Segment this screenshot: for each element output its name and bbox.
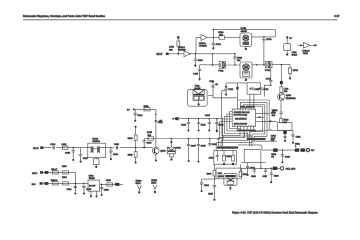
- svg-text:U801 SA606DK: U801 SA606DK: [241, 105, 256, 108]
- wire FL702 out: [252, 64, 265, 66]
- inductor L801 series: [62, 146, 68, 149]
- op-amp U702-3: [184, 51, 190, 57]
- wire bus1: [174, 118, 223, 120]
- svg-text:RSSI: RSSI: [303, 53, 308, 55]
- svg-text:R808 0: R808 0: [51, 180, 58, 182]
- node dot rail cross: [75, 183, 77, 185]
- svg-text:C703: C703: [198, 60, 204, 62]
- gnd dot Q802: [155, 159, 157, 161]
- resistor R805 on bus2: [148, 137, 154, 140]
- bus2 wire: [144, 119, 222, 151]
- corner down to C834: [200, 179, 203, 190]
- wire input row: [43, 147, 87, 149]
- inductor L701: [280, 87, 283, 93]
- capacitor C712 right: [262, 87, 263, 90]
- capacitor C817 drop3: [264, 168, 267, 174]
- svg-text:C712: C712: [264, 89, 269, 91]
- svg-text:L703: L703: [169, 47, 175, 49]
- svg-text:SHLD: SHLD: [292, 55, 298, 57]
- node dot C708 top: [270, 84, 272, 86]
- dark bar bus B2: [247, 138, 266, 140]
- capacitor C824: [74, 185, 77, 194]
- gnd dot U802-2: [95, 195, 97, 197]
- svg-text:C807: C807: [191, 145, 197, 147]
- svg-text:SHLD: SHLD: [136, 183, 142, 185]
- svg-text:R708: R708: [293, 70, 299, 72]
- capacitor C816 drop2: [253, 168, 256, 174]
- left vertical R833: [213, 164, 216, 179]
- wire Q802 collector up: [155, 109, 157, 147]
- wire to detector corner: [238, 145, 262, 150]
- resistor R803: [144, 108, 150, 111]
- svg-text:C821: C821: [296, 136, 302, 138]
- capacitor C804: [134, 109, 137, 121]
- capacitor C708: [264, 68, 272, 97]
- wire rail1: [43, 171, 75, 173]
- dark bar bus B1: [217, 146, 238, 148]
- inductor L702 can column: [284, 36, 291, 55]
- tick junction: [155, 113, 157, 115]
- svg-text:45M15A: 45M15A: [92, 140, 100, 143]
- wire U702-1 out: [207, 37, 219, 39]
- filter box T801: [214, 151, 237, 165]
- wire det gnd branch: [202, 179, 216, 184]
- svg-text:TDB159: TDB159: [178, 49, 186, 51]
- U802 gnd stub2: [96, 191, 98, 195]
- capacitor C810 on collector line: [154, 121, 157, 122]
- FL801 interior wire: [88, 148, 106, 149]
- wire R704 to FL701: [225, 37, 240, 39]
- wire U802 out: [100, 183, 123, 185]
- op-amp U702-1: [201, 35, 207, 41]
- terminal RX IF: [166, 53, 169, 55]
- node dot Y803 top: [171, 138, 173, 140]
- capacitor C831 inside: [216, 151, 219, 162]
- svg-text:C707: C707: [193, 73, 199, 75]
- shield SH801 symbol: [137, 185, 141, 193]
- wire vertical to det bus: [260, 150, 262, 168]
- wire FL801 out: [106, 147, 153, 149]
- gnd dot R832: [232, 163, 234, 165]
- bead E801: [175, 117, 178, 120]
- IC bottom pin stubs: [238, 126, 254, 129]
- node junction dots: [190, 53, 191, 54]
- wire Y701 row: [200, 54, 240, 65]
- wire Q701 emitter down: [280, 100, 282, 112]
- capacitor C836: [246, 163, 249, 176]
- crystal filter FL702: [240, 62, 252, 81]
- capacitor C806a: [79, 148, 82, 163]
- sub box: [278, 123, 293, 131]
- node dot U702-2 in: [300, 44, 302, 46]
- routing loop rect: [244, 149, 261, 162]
- node dot C706 top: [263, 36, 265, 38]
- svg-text:U702-2: U702-2: [302, 50, 310, 52]
- terminal 5V bus: [172, 118, 174, 120]
- svg-text:R802: R802: [128, 155, 134, 157]
- header rule: [23, 19, 338, 21]
- svg-text:C805: C805: [114, 144, 120, 146]
- capacitor C822: [281, 149, 284, 163]
- shield box Y801: [188, 89, 208, 106]
- capacitor C805 series: [114, 146, 119, 149]
- svg-text:R801: R801: [128, 138, 134, 140]
- node dot det bus: [260, 168, 262, 170]
- capacitor C713: [224, 83, 227, 96]
- svg-text:TDB159: TDB159: [199, 45, 207, 47]
- matching box: [247, 83, 260, 94]
- svg-text:R8 4.7: R8 4.7: [51, 169, 58, 171]
- svg-text:C813: C813: [201, 125, 207, 127]
- bundle top horizontals: [213, 98, 269, 107]
- capacitor C803: [109, 147, 112, 160]
- svg-text:Q801: Q801: [286, 95, 292, 97]
- capacitor C706: [262, 37, 265, 65]
- nest left drops: [250, 121, 263, 146]
- resistor R834 right: [239, 164, 242, 177]
- capacitor C806 bus2 left end: [143, 139, 146, 149]
- node dot top wire: [213, 29, 215, 31]
- bead R821: [301, 148, 305, 151]
- op-amp U702-2: [304, 42, 310, 48]
- inductor L703 column: [177, 36, 180, 55]
- FL801 ground stub box: [93, 158, 99, 168]
- svg-text:78M05: 78M05: [89, 178, 96, 180]
- bead R820: [295, 148, 299, 151]
- svg-text:L702: L702: [292, 52, 298, 54]
- resistor R719: [280, 119, 283, 123]
- svg-text:R805: R805: [147, 132, 153, 134]
- node dots Y701 row: [212, 64, 214, 66]
- svg-text:C706: C706: [266, 39, 272, 41]
- resistor R802: [134, 148, 137, 164]
- terminal RX IN: [40, 146, 43, 149]
- resistor R708: [288, 65, 291, 80]
- svg-text:C708: C708: [266, 79, 272, 81]
- capacitor C707 column: [198, 65, 201, 81]
- IC left nest corners: [216, 112, 252, 140]
- svg-text:C704: C704: [216, 44, 222, 46]
- terminal circle DET: [280, 167, 283, 170]
- svg-text:C801: C801: [50, 144, 56, 146]
- node dot R chain: [135, 147, 137, 149]
- crystal filter FL701: [240, 33, 252, 50]
- svg-text:C802: C802: [65, 152, 71, 154]
- capacitor C826: [100, 184, 103, 197]
- terminal circle FLT: [306, 148, 309, 151]
- terminal 9V3: [40, 182, 43, 185]
- svg-text:C804: C804: [137, 115, 143, 117]
- side circuit terminal 9V3: [133, 108, 135, 110]
- resistor R808: [52, 182, 58, 185]
- node dot: [281, 64, 283, 66]
- crystal sym1 in FL801: [91, 146, 93, 153]
- wire can2 stem down: [236, 83, 238, 100]
- capacitor C807: [187, 138, 190, 162]
- svg-text:C812: C812: [181, 125, 187, 127]
- wire bead to L701: [280, 73, 282, 87]
- crystal sym2 in FL801: [98, 146, 100, 153]
- svg-text:C822: C822: [285, 156, 291, 158]
- svg-text:4-17: 4-17: [334, 14, 340, 18]
- IC pin ticks top inside: [235, 109, 255, 110]
- crystal Y701: [219, 62, 226, 69]
- gnd dot U802-1: [90, 195, 92, 197]
- side circuit wire: [135, 108, 156, 110]
- capacitor C719: [280, 112, 283, 119]
- resistor R810: [107, 183, 113, 186]
- bead E802: [273, 167, 278, 170]
- regulator U802: [88, 180, 100, 191]
- U802 gnd stub1: [90, 191, 92, 195]
- arrow on wire: [259, 116, 262, 118]
- bead E702: [236, 87, 238, 89]
- resistor R801: [134, 127, 137, 148]
- wire U702-1 in: [196, 37, 201, 39]
- wire left column gnd: [216, 119, 218, 131]
- capacitor C711 in box: [253, 87, 254, 90]
- wire filt bus 150: [262, 149, 309, 151]
- wire box to C811: [208, 95, 213, 97]
- bead E803: [273, 148, 277, 152]
- resistor R806: [52, 171, 58, 174]
- svg-text:Y701: Y701: [218, 71, 224, 73]
- svg-text:GN FL1 FL2 OUT: GN FL1 FL2 OUT: [234, 124, 247, 126]
- shielded crystal Y803: [167, 147, 175, 160]
- capacitor C825: [82, 183, 85, 195]
- svg-text:RX IF: RX IF: [157, 54, 163, 56]
- IC bottom pins down to bar: [245, 131, 251, 138]
- IC pin ticks bottom inside: [235, 125, 255, 126]
- svg-text:C806: C806: [146, 142, 152, 144]
- bundle verticals right: [252, 100, 272, 136]
- capacitor C813: [197, 118, 200, 132]
- ground C703: [194, 64, 196, 66]
- capacitor C812: [187, 118, 190, 132]
- resistor R807: [63, 171, 69, 174]
- svg-text:RX IF: RX IF: [33, 148, 39, 150]
- svg-text:Q802: Q802: [160, 151, 166, 153]
- terminal RX EN: [40, 171, 43, 174]
- terminal dot 9V3 feed: [135, 126, 137, 128]
- transistor Q802: [152, 147, 159, 154]
- wire IF input to U702-3: [169, 53, 184, 55]
- IC U801 box: [232, 109, 255, 126]
- node dot box right: [259, 88, 261, 90]
- crystal filter FL801 box: [88, 143, 106, 157]
- wire Y702 out: [272, 65, 290, 74]
- quad box: [216, 168, 241, 179]
- resistor R704: [219, 36, 225, 39]
- capacitor C704: [212, 30, 215, 48]
- capacitor C818 drop4: [270, 168, 273, 184]
- svg-text:SHLD: SHLD: [151, 183, 157, 185]
- node dot C706 bottom: [263, 64, 265, 66]
- bead E805: [44, 182, 48, 185]
- svg-text:C711: C711: [255, 89, 259, 91]
- capacitor C835 tail: [213, 184, 216, 200]
- nest horizontals under IC: [216, 129, 252, 151]
- wire rail2: [43, 182, 88, 184]
- svg-text:RX E: RX E: [32, 173, 38, 175]
- resistor R809: [63, 182, 69, 185]
- wire nest line y141: [253, 140, 278, 142]
- bead E806: [115, 183, 119, 186]
- IC bottom dark strip: [237, 130, 256, 132]
- IC top pin wires up: [238, 94, 254, 109]
- svg-text:IN OUT: IN OUT: [89, 185, 96, 187]
- shield SH802 symbol: [153, 185, 157, 193]
- IC right out wires: [256, 113, 278, 121]
- bead E804: [45, 171, 49, 174]
- svg-text:Y702: Y702: [265, 70, 271, 72]
- wire Q802 emitter down: [155, 154, 157, 159]
- svg-text:RSS MUTE AU: RSS MUTE AU: [235, 118, 247, 121]
- capacitor C821: [291, 131, 294, 144]
- capacitor C801 series: [51, 146, 56, 149]
- capacitor C814: [208, 118, 211, 132]
- terminal arrow out: [314, 44, 317, 47]
- crystal Y801 symbol: [193, 90, 204, 106]
- svg-text:C814: C814: [205, 115, 211, 117]
- wire y82.9: [226, 82, 247, 84]
- shielded crystal Y802: [224, 173, 237, 190]
- svg-text:C815: C815: [218, 125, 224, 127]
- gnd dot R831: [223, 163, 225, 165]
- svg-text:C809: C809: [212, 144, 218, 146]
- capacitor C808: [197, 138, 200, 163]
- resistor R832 inside: [232, 151, 235, 162]
- svg-text:45M05: 45M05: [241, 31, 248, 33]
- svg-text:C811: C811: [209, 81, 215, 83]
- transistor Q701: [277, 93, 284, 100]
- svg-text:C808: C808: [201, 145, 207, 147]
- capacitor C815: [215, 118, 218, 132]
- wire y162: [242, 162, 266, 164]
- wire U702-3 out: [190, 38, 235, 54]
- node dot box left: [250, 88, 252, 90]
- wire top feedback: [213, 30, 275, 37]
- wire bus 131: [250, 130, 293, 132]
- node dot: [256, 64, 258, 66]
- arrow on wire2: [270, 120, 273, 122]
- svg-text:Figure 4-68. VHF (136-174 MHz): Figure 4-68. VHF (136-174 MHz) Receiver …: [232, 210, 318, 214]
- wire U702-2 in: [298, 44, 304, 46]
- wire Y803: [170, 139, 172, 148]
- svg-text:M X VCC L M QD: M X VCC L M QD: [234, 114, 248, 116]
- capacitor C811 column: [211, 82, 232, 98]
- capacitor C809: [208, 138, 211, 147]
- svg-text:Schematic Diagrams, Overlays,: Schematic Diagrams, Overlays, and Parts …: [23, 14, 105, 18]
- capacitor C802: [72, 147, 75, 161]
- ground C704: [212, 48, 215, 50]
- resistor R831 inside: [223, 151, 226, 162]
- electrolytic C820: [283, 131, 287, 142]
- svg-text:C818: C818: [274, 175, 280, 177]
- svg-text:R803: R803: [144, 106, 150, 108]
- svg-text:MMBR901: MMBR901: [286, 98, 297, 100]
- bead E701: [280, 81, 283, 84]
- svg-text:C803: C803: [113, 154, 119, 156]
- svg-text:DET_AUD: DET_AUD: [286, 167, 296, 170]
- outer loop corner: [222, 91, 227, 119]
- gnd dot C834: [201, 190, 203, 192]
- gnd dot left column: [216, 130, 218, 132]
- junction dark dot Y803: [170, 141, 172, 143]
- svg-text:QUAD: QUAD: [218, 175, 224, 178]
- capacitor C703: [194, 54, 197, 65]
- detector bus: [241, 167, 280, 169]
- wire rail1 corner down: [74, 172, 76, 190]
- wire U702-2 out: [310, 44, 315, 46]
- crystal Y702: [265, 62, 272, 68]
